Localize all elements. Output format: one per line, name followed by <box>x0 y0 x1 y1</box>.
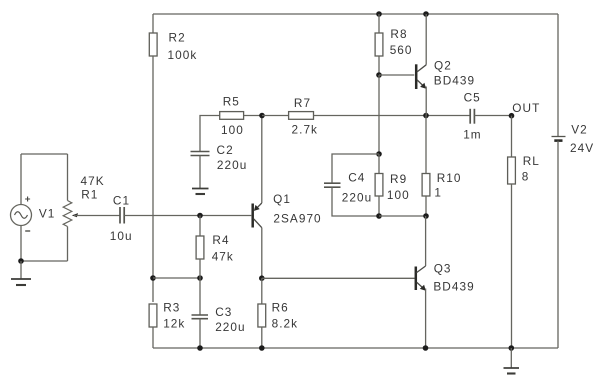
wire: Q1 collector down <box>261 228 263 279</box>
wire: C4 bottom branch <box>332 187 379 216</box>
resistor R5 <box>220 112 244 120</box>
wire: C3 top lead <box>199 278 201 315</box>
svg-text:R10: R10 <box>437 171 462 185</box>
svg-text:R8: R8 <box>390 27 407 41</box>
svg-text:8: 8 <box>522 170 530 184</box>
wire: junction to R7 <box>262 115 289 117</box>
resistor R4 <box>196 236 204 259</box>
svg-text:R6: R6 <box>272 301 289 315</box>
wire: left edge upper (top rail to R2) <box>152 14 154 33</box>
junction: R10 bottom / Q3 collector node <box>423 213 429 219</box>
capacitor C2 <box>191 152 210 156</box>
junction: R5/R7/Q1 emitter node <box>259 113 265 119</box>
junction: Q3 emitter on rail <box>423 345 429 351</box>
wire: down to Q3 collector <box>425 216 427 266</box>
wire: C4 top branch <box>332 154 379 183</box>
wire: top supply rail <box>153 13 558 15</box>
svg-text:R9: R9 <box>390 172 407 186</box>
wire: Q2 collector lead <box>425 14 427 65</box>
wire: R4 bottom lead <box>199 259 201 278</box>
wire: R4 top lead <box>199 216 201 237</box>
svg-text:Q3: Q3 <box>434 262 452 276</box>
wire: R10 top lead <box>425 116 427 174</box>
wire: Q1 emitter up to R5/R7 node <box>261 116 263 204</box>
svg-text:BD439: BD439 <box>434 74 475 88</box>
junction: Q2 emitter / R10 node <box>423 113 429 119</box>
svg-text:100: 100 <box>387 188 410 202</box>
svg-text:220u: 220u <box>342 191 372 205</box>
svg-text:12k: 12k <box>163 316 185 330</box>
ground (output) <box>504 348 520 374</box>
svg-text:R3: R3 <box>163 301 180 315</box>
resistor R10 <box>422 174 430 197</box>
battery V2 <box>552 137 566 141</box>
wire: R8 bottom to Q2 base junction <box>378 56 380 75</box>
wire: right edge upper (top rail to V2) <box>557 14 559 137</box>
transistor Q2 <box>416 64 426 89</box>
junction: top rail Q2 collector tap <box>423 11 429 17</box>
capacitor C1 <box>120 207 124 224</box>
wire: R6 bottom lead <box>261 327 263 348</box>
svg-text:560: 560 <box>390 43 413 57</box>
wire: R8 top lead <box>378 14 380 33</box>
wire: C2 branch top (R5 left to C2) <box>200 116 220 152</box>
wire: R7 to C5 (mid rail) <box>314 115 471 117</box>
svg-text:220u: 220u <box>217 158 247 172</box>
svg-text:1: 1 <box>434 186 442 200</box>
svg-text:47k: 47k <box>212 250 234 264</box>
svg-text:C3: C3 <box>215 305 232 319</box>
wire: R8 node down to C4 tap <box>378 75 380 154</box>
svg-text:100: 100 <box>221 123 244 137</box>
svg-text:220u: 220u <box>215 320 245 334</box>
svg-text:100k: 100k <box>168 48 198 62</box>
resistor R9 <box>375 174 383 197</box>
wire: left edge lower (R3 to bottom rail) <box>152 327 154 348</box>
ground (input) <box>11 261 31 285</box>
svg-text:RL: RL <box>523 154 540 168</box>
svg-text:1m: 1m <box>463 128 482 142</box>
junction: R9 bottom node <box>376 213 382 219</box>
capacitor C5 <box>470 109 474 124</box>
svg-text:47K: 47K <box>81 174 105 188</box>
wire: V1 bottom stub <box>20 226 22 262</box>
junction: C3 bottom on rail <box>197 345 203 351</box>
svg-text:10u: 10u <box>110 229 133 243</box>
source V1 <box>11 197 32 232</box>
resistor R7 <box>289 112 314 120</box>
junction: top rail R8 tap <box>376 11 382 17</box>
wire: V1 loop bottom horizontal <box>21 260 68 262</box>
capacitor C4 <box>324 183 341 187</box>
svg-text:8.2k: 8.2k <box>272 316 299 330</box>
resistor R8 <box>375 33 383 56</box>
svg-text:R7: R7 <box>294 96 311 110</box>
svg-text:R1: R1 <box>81 188 98 202</box>
wire: V1 loop top horizontal <box>21 153 68 155</box>
transistor Q3 <box>416 266 426 291</box>
junction: Q1 collector / R6 node <box>259 275 265 281</box>
wire: V1 top stub <box>20 154 22 205</box>
wire: bottom ground rail <box>153 347 558 349</box>
svg-text:2.7k: 2.7k <box>292 123 319 137</box>
wire: Q1 collector to Q3 base <box>262 277 415 279</box>
wire: R9 bottom lead <box>378 196 380 216</box>
wire: Q3 emitter down to bottom rail <box>425 289 427 349</box>
junction: node OUT <box>509 113 515 119</box>
svg-text:R5: R5 <box>223 95 240 109</box>
svg-text:C2: C2 <box>217 143 234 157</box>
junction: R4/C3 node <box>197 275 203 281</box>
wire: R6 top lead <box>261 278 263 304</box>
transistor Q1 <box>253 203 262 228</box>
junction: V1 bottom node <box>18 258 24 264</box>
svg-text:2SA970: 2SA970 <box>273 212 321 226</box>
junction: RL / ground node on bottom rail <box>509 345 515 351</box>
wire: C1 to Q1 base <box>124 215 251 217</box>
potentiometer R1 <box>63 201 78 227</box>
svg-text:24V: 24V <box>570 141 594 155</box>
wire: left edge middle (R2 bottom down to R3 junction) <box>152 56 154 302</box>
wire: Q2 emitter down to mid rail <box>425 87 427 116</box>
resistor R6 <box>258 304 266 327</box>
resistor R2 <box>149 33 157 56</box>
wire: R1 top lead <box>67 154 69 201</box>
svg-text:C4: C4 <box>348 170 365 184</box>
wire: C4 tap to R9 <box>378 154 380 174</box>
junction: R6 bottom on rail <box>259 345 265 351</box>
junction: R3/R4 node <box>150 275 156 281</box>
wire: C2 to ground stub <box>199 156 201 189</box>
wire: R1 bottom lead <box>67 227 69 262</box>
junction: R4 top on base wire <box>197 213 203 219</box>
svg-text:C5: C5 <box>464 91 481 105</box>
svg-text:Q1: Q1 <box>273 192 291 206</box>
svg-text:V2: V2 <box>571 123 588 137</box>
wire: Q2 base wire <box>379 74 414 76</box>
resistor RL <box>508 157 516 184</box>
capacitor C3 <box>192 315 209 319</box>
wire: R9 bottom to R10 bottom <box>379 215 426 217</box>
svg-text:V1: V1 <box>39 207 56 221</box>
svg-text:OUT: OUT <box>512 101 540 115</box>
wire: OUT down to RL <box>511 116 513 157</box>
wire: R3 node to R4/C3 node <box>153 277 200 279</box>
junction: R8 / Q2 base node <box>376 72 382 78</box>
wire: R10 bottom lead <box>425 196 427 216</box>
wire: C3 bottom lead <box>199 319 201 348</box>
wire: RL down to bottom rail <box>511 184 513 348</box>
svg-text:BD439: BD439 <box>433 279 474 293</box>
wire: right edge lower (V2 to bottom rail) <box>557 141 559 348</box>
ground (C2) <box>192 189 209 195</box>
wire: C5 to OUT node <box>474 115 511 117</box>
resistor R3 <box>149 304 157 327</box>
svg-text:Q2: Q2 <box>434 59 452 73</box>
wire: R5 to junction <box>244 115 262 117</box>
junction: C4 tap node <box>376 151 382 157</box>
svg-text:R2: R2 <box>169 31 186 45</box>
svg-text:R4: R4 <box>212 233 229 247</box>
wire: R1 wiper to C1 <box>74 215 120 217</box>
svg-text:C1: C1 <box>113 194 130 208</box>
